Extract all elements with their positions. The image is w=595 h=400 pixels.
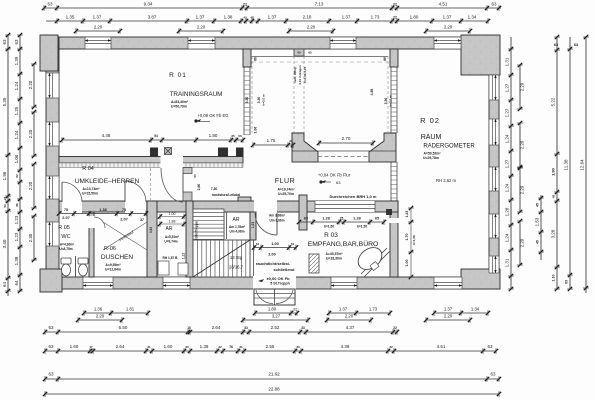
svg-text:U=29,78m: U=29,78m — [423, 156, 439, 160]
svg-text:32: 32 — [293, 308, 297, 312]
plumbing wall R06 east — [147, 201, 157, 277]
svg-text:1.24: 1.24 — [14, 81, 19, 90]
window right 2 — [489, 119, 499, 145]
svg-text:1.39: 1.39 — [14, 56, 19, 65]
svg-text:1.90: 1.90 — [551, 167, 556, 176]
dimension right colC — [535, 195, 544, 260]
svg-text:2.64: 2.64 — [212, 325, 221, 330]
door swing R06 to R04 — [125, 181, 146, 202]
svg-text:U=15,50m: U=15,50m — [82, 192, 98, 196]
dimension right colE — [564, 37, 573, 291]
dimension right colA — [505, 37, 514, 291]
dimension chain top row1 — [42, 2, 501, 11]
svg-text:1.28: 1.28 — [322, 217, 329, 221]
svg-text:2.20: 2.20 — [197, 25, 206, 30]
svg-text:1.24: 1.24 — [505, 183, 510, 192]
svg-text:4.51: 4.51 — [439, 2, 448, 7]
svg-text:1.00: 1.00 — [169, 212, 176, 216]
window bottom 4 — [434, 277, 462, 289]
svg-text:2.20: 2.20 — [345, 314, 354, 319]
WC fixture 1 — [61, 258, 71, 276]
svg-text:A=13,74m²: A=13,74m² — [82, 187, 100, 191]
svg-text:32: 32 — [218, 345, 222, 349]
svg-text:2.20: 2.20 — [520, 185, 525, 194]
arrow entrance level — [258, 279, 264, 282]
svg-text:schließend: schließend — [274, 267, 295, 272]
svg-text:65: 65 — [375, 217, 379, 221]
wall stub V1 top — [243, 49, 251, 67]
dimension inside R01 — [60, 133, 245, 143]
svg-text:2.70: 2.70 — [342, 136, 351, 141]
svg-text:86: 86 — [254, 57, 258, 61]
wall stub V2 top — [390, 49, 398, 67]
bay pier left — [292, 133, 318, 162]
svg-text:1,03: 1,03 — [251, 222, 255, 228]
svg-text:2.64: 2.64 — [116, 344, 125, 349]
svg-text:R 04: R 04 — [82, 166, 94, 172]
svg-text:3.30: 3.30 — [245, 97, 249, 104]
svg-text:10: 10 — [187, 326, 191, 330]
svg-text:5.35: 5.35 — [2, 97, 7, 106]
svg-text:86: 86 — [383, 57, 387, 61]
svg-text:1.31: 1.31 — [505, 258, 510, 267]
svg-text:A=19,74m²: A=19,74m² — [277, 188, 295, 192]
svg-text:1.37: 1.37 — [339, 307, 348, 312]
wall R01 south — [59, 157, 243, 164]
svg-text:1,43: 1,43 — [405, 211, 409, 218]
bottom-left corner block — [40, 269, 62, 292]
glazed partition V1 — [244, 67, 250, 135]
svg-text:rauchdicht/selbst-: rauchdicht/selbst- — [256, 261, 291, 266]
svg-text:3.40: 3.40 — [2, 239, 7, 248]
entrance opening in bottom wall — [253, 276, 296, 290]
svg-text:1.06: 1.06 — [254, 127, 258, 134]
dimension bottom row A — [82, 307, 490, 316]
svg-text:1.37: 1.37 — [443, 15, 452, 20]
svg-text:1.31: 1.31 — [505, 57, 510, 66]
basement stair shaft (Kellertreppe) — [193, 209, 224, 240]
dimension right colF — [580, 35, 589, 293]
svg-text:63: 63 — [47, 2, 53, 7]
svg-text:h=2,43-3,15: h=2,43-3,15 — [303, 67, 307, 84]
svg-text:UMKLEIDE–HERREN: UMKLEIDE–HERREN — [75, 178, 140, 185]
main stair — [193, 240, 250, 277]
svg-text:1.38: 1.38 — [99, 208, 106, 212]
svg-text:23: 23 — [3, 197, 7, 201]
pier squares on wall R01 south — [150, 148, 244, 158]
svg-text:1.60: 1.60 — [164, 344, 173, 349]
svg-text:TRAININGSRAUM: TRAININGSRAUM — [170, 91, 223, 98]
svg-text:22: 22 — [393, 16, 397, 20]
bay sill lines — [292, 151, 396, 162]
svg-text:21.62: 21.62 — [268, 372, 280, 377]
window left 1 — [46, 73, 59, 98]
svg-text:Am 1,78m²: Am 1,78m² — [229, 225, 245, 229]
svg-text:1.37: 1.37 — [444, 307, 453, 312]
svg-text:1.73: 1.73 — [371, 15, 380, 20]
svg-text:b=1,50: b=1,50 — [324, 225, 334, 229]
svg-text:63: 63 — [565, 280, 569, 284]
svg-text:1.27: 1.27 — [505, 83, 510, 92]
svg-text:4.58: 4.58 — [370, 89, 374, 96]
svg-text:DUSCHEN: DUSCHEN — [101, 254, 133, 261]
svg-text:63: 63 — [490, 372, 496, 377]
dimension left col3 (2.20 axes) — [28, 62, 37, 262]
svg-text:1.34: 1.34 — [468, 15, 477, 20]
arch pillar stub — [294, 49, 304, 56]
svg-text:63: 63 — [487, 344, 493, 349]
svg-text:rundsturz/Leibdal: rundsturz/Leibdal — [212, 193, 241, 197]
door opening R05 to R04 — [62, 200, 82, 213]
svg-text:b=1,58: b=1,58 — [412, 235, 416, 245]
svg-text:37: 37 — [140, 218, 144, 222]
svg-text:64: 64 — [14, 280, 19, 286]
dimension stair hall door — [252, 242, 298, 250]
svg-text:A=43,57m²: A=43,57m² — [325, 252, 343, 256]
bay lintel dashed — [252, 61, 388, 63]
dimension left col1 — [2, 33, 11, 296]
svg-text:43: 43 — [243, 16, 247, 20]
svg-text:U=8,75m: U=8,75m — [59, 247, 72, 251]
door swing R05 to R04 — [62, 182, 82, 202]
dimension bay arch left — [251, 138, 295, 148]
svg-text:AR: AR — [233, 217, 240, 223]
svg-text:62: 62 — [15, 174, 19, 178]
dimension left col2 — [14, 33, 23, 293]
window right 4 — [489, 214, 499, 238]
svg-text:b=1,50: b=1,50 — [357, 225, 367, 229]
svg-text:31: 31 — [147, 345, 151, 349]
svg-text:3.87: 3.87 — [148, 15, 157, 20]
svg-text:h=3,0 m: h=3,0 m — [262, 94, 266, 106]
svg-text:6.50: 6.50 — [119, 325, 128, 330]
dashed line R04 east niche — [150, 168, 152, 200]
svg-text:3.30: 3.30 — [257, 97, 261, 104]
svg-text:1.27: 1.27 — [505, 159, 510, 168]
svg-text:48: 48 — [250, 16, 254, 20]
arch dashed jambs — [252, 56, 388, 133]
svg-text:25: 25 — [231, 134, 235, 138]
svg-text:1.88: 1.88 — [169, 220, 176, 224]
svg-text:U=25,70m: U=25,70m — [278, 192, 294, 196]
svg-text:2.20: 2.20 — [520, 140, 525, 149]
svg-text:R 02: R 02 — [420, 116, 440, 125]
glazed wall V2 mid — [391, 162, 397, 201]
svg-text:63: 63 — [14, 39, 19, 45]
svg-text:65: 65 — [308, 51, 312, 55]
svg-text:A=50,52m²: A=50,52m² — [423, 152, 441, 156]
wall AR east — [186, 201, 193, 277]
porch door swing right — [276, 290, 293, 304]
floor drain cross in shower — [103, 222, 147, 250]
svg-text:61: 61 — [291, 242, 295, 246]
svg-text:61: 61 — [256, 242, 260, 246]
window top 1 — [85, 37, 111, 49]
svg-text:22: 22 — [393, 326, 397, 330]
svg-text:1.38: 1.38 — [14, 256, 19, 265]
svg-text:2.52: 2.52 — [271, 325, 280, 330]
AR left dim lines — [158, 212, 186, 227]
dimension bottom row C — [43, 325, 399, 335]
svg-text:RADERGOMETER: RADERGOMETER — [423, 144, 475, 150]
svg-text:1.23: 1.23 — [14, 232, 19, 241]
svg-text:75: 75 — [122, 208, 126, 212]
window left 3 — [46, 176, 59, 199]
window top 3 — [330, 37, 356, 49]
svg-text:RAUM: RAUM — [421, 134, 442, 141]
svg-text:1.24: 1.24 — [505, 233, 510, 242]
wall AR-mid west thin — [224, 212, 227, 239]
svg-text:1.24: 1.24 — [14, 130, 19, 139]
WC fixture 2 — [78, 258, 88, 276]
svg-text:2.30: 2.30 — [28, 233, 33, 242]
svg-text:30: 30 — [296, 345, 300, 349]
door opening R06 to R04 — [125, 200, 146, 213]
svg-text:1.37: 1.37 — [196, 15, 205, 20]
entrance porch — [254, 289, 295, 305]
svg-text:seitl. Öffng: seitl. Öffng — [292, 67, 297, 83]
svg-text:33: 33 — [301, 326, 305, 330]
door swing R05-R06 — [94, 217, 105, 228]
svg-text:22: 22 — [243, 3, 247, 7]
svg-text:1.70: 1.70 — [405, 234, 409, 241]
door opening FLUR to stair hall — [254, 200, 277, 213]
svg-text:1.34: 1.34 — [471, 307, 480, 312]
svg-text:A=9,55m²: A=9,55m² — [105, 263, 121, 267]
svg-text:1.36: 1.36 — [94, 307, 103, 312]
svg-text:31: 31 — [239, 345, 243, 349]
bottom-right corner block — [461, 269, 500, 289]
wall R01 south hatch strip — [59, 163, 243, 168]
svg-text:4.51: 4.51 — [437, 344, 446, 349]
svg-text:75: 75 — [64, 208, 68, 212]
window left 4 — [46, 222, 59, 246]
pier V1 at FLUR — [238, 197, 251, 212]
dimension chain top row2 — [46, 15, 490, 24]
AR fixtures — [158, 261, 188, 275]
svg-text:R 03: R 03 — [324, 232, 338, 239]
svg-text:FLUR: FLUR — [275, 178, 295, 185]
svg-text:Um 4,98m: Um 4,98m — [229, 230, 244, 234]
svg-text:1.75: 1.75 — [267, 138, 276, 143]
svg-text:U=50,79m: U=50,79m — [171, 105, 187, 109]
svg-text:5 St.Trepph: 5 St.Trepph — [270, 282, 290, 286]
wall V2 lower — [390, 201, 398, 277]
svg-text:30: 30 — [185, 345, 189, 349]
WC partition wall — [75, 256, 77, 277]
top wall — [46, 37, 499, 49]
svg-text:2.55: 2.55 — [266, 344, 275, 349]
svg-text:1.96: 1.96 — [2, 171, 7, 180]
svg-text:5.22: 5.22 — [551, 97, 556, 106]
svg-text:2.00: 2.00 — [268, 253, 275, 257]
wall stair hall west thin — [250, 212, 254, 277]
svg-text:64: 64 — [2, 282, 7, 288]
svg-text:1.38: 1.38 — [224, 15, 233, 20]
svg-text:4.48: 4.48 — [102, 133, 111, 138]
svg-text:17: 17 — [89, 345, 93, 349]
dimension R04 doors — [57, 208, 148, 216]
svg-text:U=12,84m: U=12,84m — [105, 268, 121, 272]
window right 5 — [489, 256, 499, 273]
svg-text:1.10: 1.10 — [552, 275, 556, 282]
svg-text:76: 76 — [229, 345, 233, 349]
bay pier right — [369, 133, 396, 162]
svg-text:1.80: 1.80 — [268, 307, 277, 312]
door swing R01 to FLUR — [161, 168, 183, 202]
wall R05-R06 — [89, 212, 94, 277]
wall R03 west — [299, 195, 307, 230]
svg-text:2.20: 2.20 — [444, 314, 453, 319]
svg-text:R 05: R 05 — [58, 225, 70, 231]
svg-text:54: 54 — [154, 134, 158, 138]
svg-text:22.88: 22.88 — [268, 387, 280, 392]
svg-text:R-06: R-06 — [104, 246, 116, 252]
dimension bay arch right — [317, 136, 375, 146]
svg-text:+0,08 OK Fb EG: +0,08 OK Fb EG — [197, 113, 228, 118]
svg-text:Um 8,66m: Um 8,66m — [269, 219, 284, 223]
svg-text:1,12: 1,12 — [182, 253, 186, 259]
porch door swing left — [256, 290, 273, 304]
svg-text:1.00: 1.00 — [405, 260, 409, 267]
dimension top row3 (2.20 axes) — [74, 25, 472, 34]
svg-text:1.24: 1.24 — [505, 134, 510, 143]
dimension right colB (2.20 axes) — [517, 63, 524, 267]
svg-text:2.20: 2.20 — [96, 314, 105, 319]
svg-text:33: 33 — [244, 326, 248, 330]
dimension bottom row E — [43, 372, 501, 382]
svg-text:1.23: 1.23 — [14, 215, 19, 224]
svg-text:06: 06 — [238, 134, 242, 138]
window bottom 2 — [163, 277, 190, 289]
svg-text:2.20: 2.20 — [28, 181, 33, 190]
svg-text:AR: AR — [166, 226, 173, 232]
svg-text:2.20: 2.20 — [444, 25, 453, 30]
svg-text:1.37: 1.37 — [268, 15, 277, 20]
svg-text:2.20: 2.20 — [520, 238, 525, 247]
top-left corner block — [40, 35, 58, 71]
svg-text:53: 53 — [3, 204, 7, 208]
svg-text:1.39: 1.39 — [200, 344, 209, 349]
left wall — [46, 37, 59, 289]
svg-text:1.80: 1.80 — [209, 133, 218, 138]
svg-text:RH 1,87 B: RH 1,87 B — [163, 256, 179, 260]
svg-text:h=3,0 m: h=3,0 m — [389, 95, 393, 107]
svg-text:2.20: 2.20 — [520, 82, 525, 91]
svg-text:1.25: 1.25 — [14, 106, 19, 115]
svg-text:86: 86 — [15, 203, 19, 207]
svg-text:1.80: 1.80 — [410, 15, 419, 20]
svg-text:32: 32 — [389, 345, 393, 349]
window left 2 — [46, 122, 59, 146]
window top 4 — [434, 37, 461, 49]
svg-text:3,52: 3,52 — [149, 227, 153, 233]
svg-text:63: 63 — [336, 180, 341, 185]
dimension R03 top chain — [297, 217, 386, 225]
svg-text:3,27: 3,27 — [272, 314, 281, 319]
svg-text:1.81: 1.81 — [126, 307, 135, 312]
svg-text:63: 63 — [48, 325, 54, 330]
svg-text:Durchreichen BRH 1,0 m: Durchreichen BRH 1,0 m — [330, 194, 377, 199]
svg-text:63: 63 — [48, 344, 54, 349]
window bottom 3 — [331, 277, 357, 289]
pier square at R03 corner — [386, 209, 392, 215]
window bottom 1 — [83, 277, 113, 289]
svg-text:11.38: 11.38 — [564, 159, 569, 170]
svg-text:48: 48 — [552, 195, 556, 199]
svg-text:R 01: R 01 — [169, 72, 187, 79]
svg-text:A=5,52m²: A=5,52m² — [165, 235, 179, 239]
svg-text:1.60: 1.60 — [70, 344, 79, 349]
wall H2 — [59, 201, 398, 212]
shelf in R03 — [309, 254, 319, 273]
dimension right colD — [551, 35, 560, 291]
door opening R01-FLUR — [161, 156, 184, 169]
svg-text:3.30: 3.30 — [384, 98, 388, 105]
svg-text:22: 22 — [393, 3, 397, 7]
svg-text:1.06: 1.06 — [14, 154, 19, 163]
svg-text:63: 63 — [2, 39, 7, 45]
svg-text:1.00: 1.00 — [271, 242, 278, 246]
dimension bottom row D — [43, 344, 498, 354]
svg-text:Am 3,08m²: Am 3,08m² — [269, 214, 285, 218]
svg-text:63: 63 — [574, 43, 578, 47]
svg-text:4.37: 4.37 — [346, 325, 355, 330]
svg-text:RH 3,62 m: RH 3,62 m — [436, 178, 457, 183]
wall R04 east jamb — [183, 168, 192, 202]
window right 3 — [489, 167, 499, 191]
svg-text:7.13: 7.13 — [315, 2, 324, 7]
svg-text:+0,04 OK Fb Flur: +0,04 OK Fb Flur — [318, 173, 351, 178]
svg-text:1.28: 1.28 — [505, 207, 510, 216]
door gap R05-R06 wall — [89, 216, 95, 228]
svg-text:1.37: 1.37 — [93, 15, 102, 20]
svg-text:65: 65 — [297, 51, 301, 55]
svg-text:1.37: 1.37 — [342, 15, 351, 20]
svg-text:4.39: 4.39 — [341, 344, 350, 349]
svg-text:2.07: 2.07 — [120, 218, 127, 222]
svg-text:2.07: 2.07 — [62, 216, 69, 220]
svg-text:2.20: 2.20 — [28, 129, 33, 138]
svg-text:EMPFANG,BAR,BÜRO: EMPFANG,BAR,BÜRO — [308, 240, 379, 248]
svg-text:2,60: 2,60 — [197, 184, 201, 191]
svg-text:12.64: 12.64 — [580, 159, 585, 171]
svg-text:2.20: 2.20 — [28, 80, 33, 89]
window right 1 — [489, 75, 499, 100]
svg-text:9.34: 9.34 — [144, 2, 153, 7]
svg-text:A=83,40m²: A=83,40m² — [171, 100, 189, 104]
pass-through opening (Durchreiche) — [315, 201, 375, 212]
bay lintel line — [252, 56, 388, 58]
svg-text:1.35: 1.35 — [66, 15, 75, 20]
svg-text:2.20: 2.20 — [94, 25, 103, 30]
svg-text:U=9,74m: U=9,74m — [164, 240, 177, 244]
svg-text:2.18: 2.18 — [303, 15, 312, 20]
svg-text:13 Stg: 13 Stg — [230, 255, 243, 260]
svg-text:4,01 in Bogen: 4,01 in Bogen — [298, 65, 302, 85]
svg-text:63: 63 — [554, 43, 558, 47]
svg-text:1.28: 1.28 — [353, 217, 360, 221]
svg-text:25: 25 — [340, 217, 344, 221]
svg-text:1.73: 1.73 — [369, 307, 378, 312]
svg-text:2.20: 2.20 — [307, 25, 316, 30]
svg-text:50: 50 — [193, 174, 197, 178]
door gap V2 — [390, 218, 399, 223]
level marker dot R01 — [194, 119, 210, 123]
window top 2 — [188, 37, 215, 49]
svg-text:3.28: 3.28 — [551, 229, 556, 238]
svg-text:A=4,36m²: A=4,36m² — [60, 243, 74, 247]
